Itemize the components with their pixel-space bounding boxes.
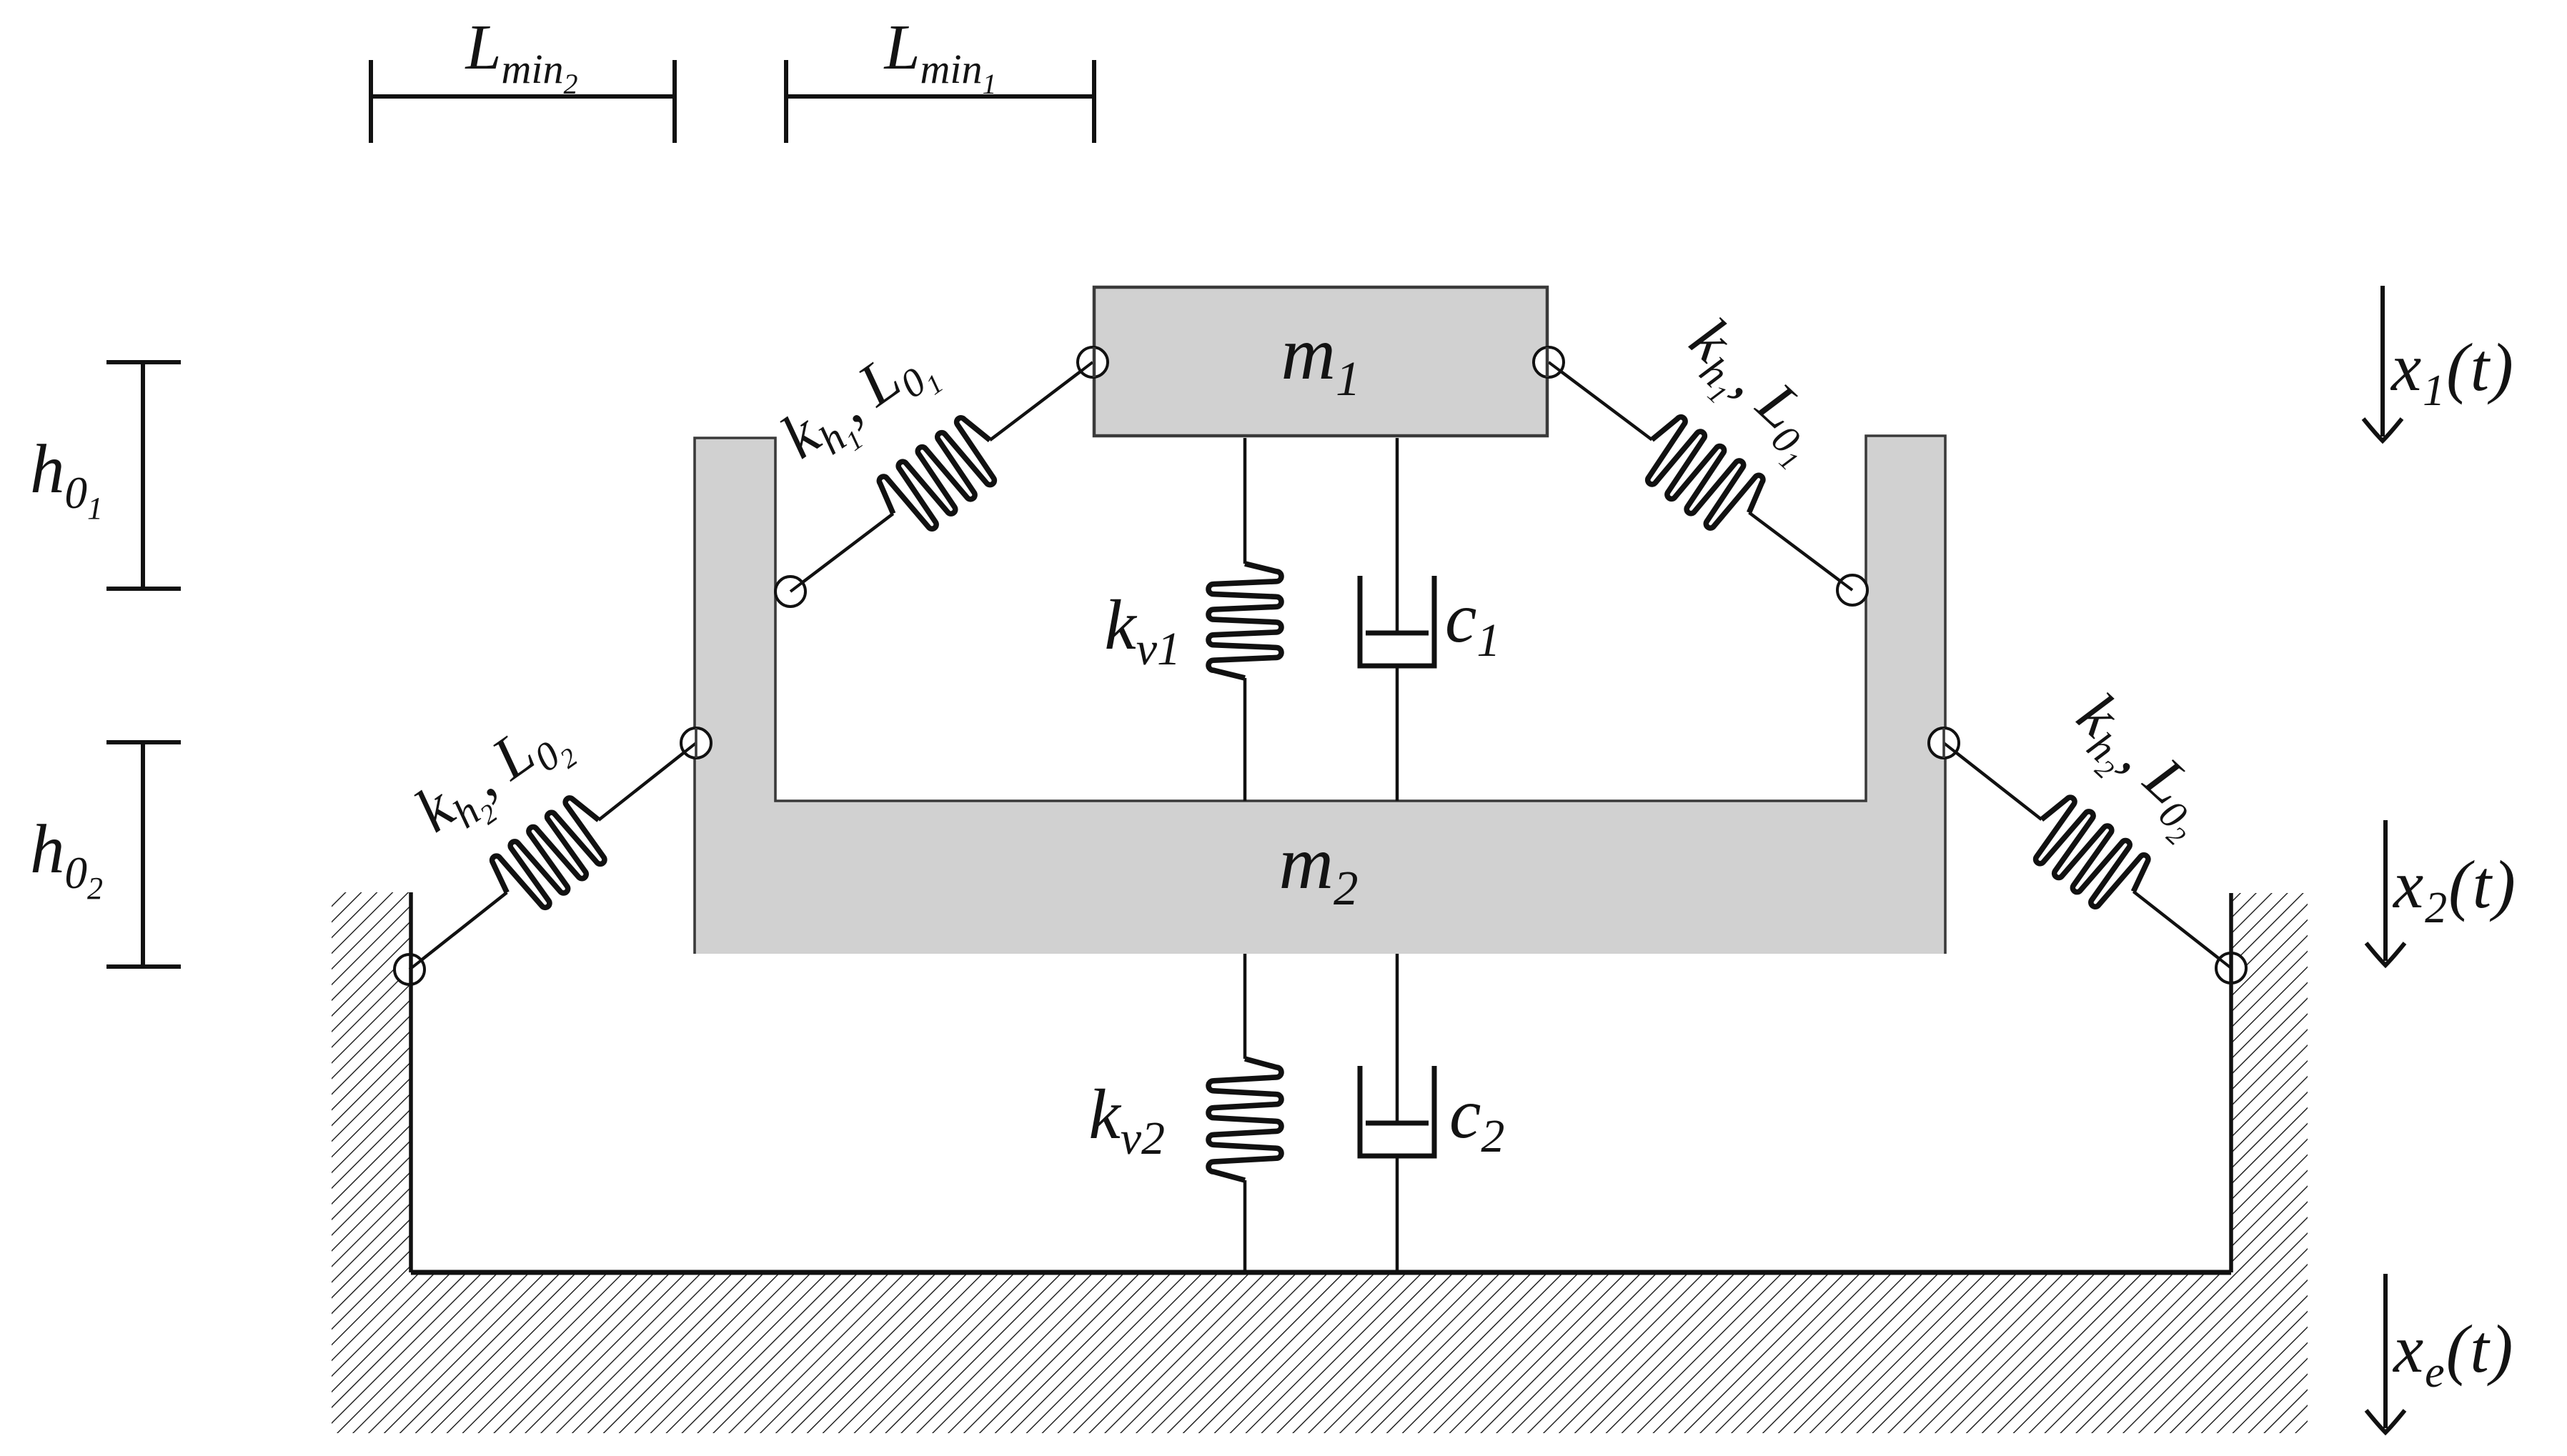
pin m2 right wall inner [1837, 575, 1867, 605]
damper c1 [1360, 438, 1434, 801]
spring kv1 [1208, 438, 1281, 801]
svg-text:c2: c2 [1449, 1074, 1504, 1162]
pin ground left wall [394, 954, 424, 984]
pin m1 left [1078, 347, 1108, 377]
spring kh2 right [1944, 743, 2231, 968]
pin ground right wall [2216, 953, 2246, 983]
spring kv2 [1208, 954, 1281, 1272]
svg-text:kv1: kv1 [1104, 585, 1181, 675]
arrow x2(t) [2366, 820, 2405, 965]
pin connection stubs [790, 582, 803, 592]
pin m2 left wall inner [775, 577, 805, 607]
dimension h02 [106, 742, 181, 967]
svg-text:c1: c1 [1445, 578, 1500, 667]
label kh2,L02 right [2054, 680, 2229, 852]
pin m2 right wall outer [1929, 728, 1959, 758]
pin m2 left wall outer [681, 728, 711, 758]
svg-text:h01: h01 [30, 431, 103, 526]
ground left wall inner edge [409, 892, 413, 1272]
ground floor top edge [411, 1270, 2231, 1275]
spring kh1 right [1549, 362, 1852, 590]
svg-text:x2(t): x2(t) [2392, 847, 2517, 932]
dimension h01 [106, 362, 181, 589]
mass m1 block [1094, 287, 1547, 436]
ground right wall inner edge [2229, 893, 2233, 1272]
arrow x1(t) [2363, 286, 2402, 441]
damper c2 [1360, 954, 1434, 1272]
svg-text:h02: h02 [30, 811, 103, 906]
label kh1,L01 right [1667, 305, 1842, 477]
dimension Lmin2 [371, 60, 675, 143]
label kh2,L02 left [403, 697, 583, 859]
svg-text:xe(t): xe(t) [2392, 1311, 2514, 1397]
svg-text:kh2, L02: kh2, L02 [2054, 680, 2229, 852]
svg-text:Lmin1: Lmin1 [883, 12, 996, 100]
ground hatch region (left wall + right wall + floor) [332, 892, 2308, 1433]
spring kh1 left [790, 362, 1093, 592]
spring kh2 left [409, 743, 696, 969]
svg-text:x1(t): x1(t) [2390, 329, 2515, 415]
svg-text:kv2: kv2 [1088, 1074, 1165, 1165]
arrow xe(t) [2366, 1274, 2405, 1432]
pin m1 right [1534, 347, 1564, 377]
label kh1,L01 left [769, 324, 949, 485]
mass m2 U-channel body [695, 436, 1945, 954]
svg-text:Lmin2: Lmin2 [464, 12, 577, 100]
dimension Lmin1 [786, 60, 1094, 143]
